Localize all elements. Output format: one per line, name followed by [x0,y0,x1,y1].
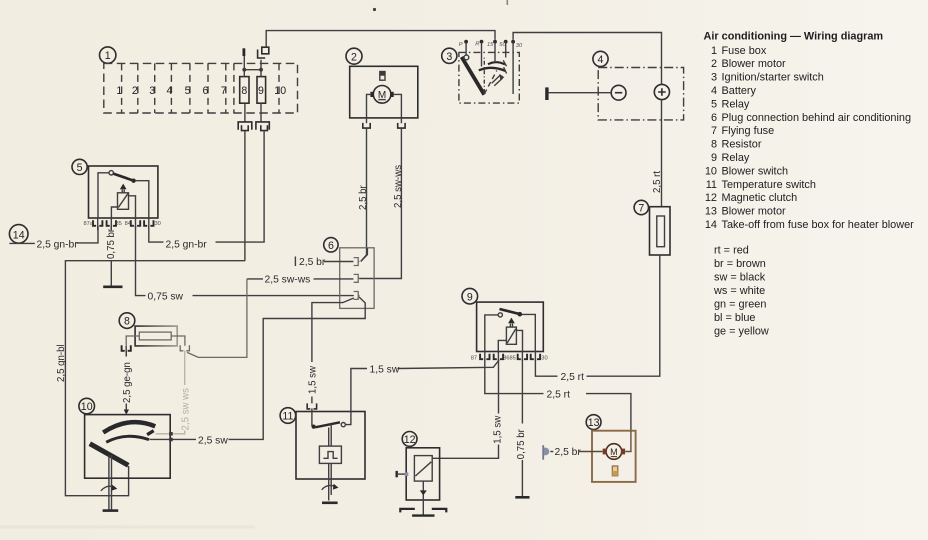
ground below relay K5 [103,285,122,288]
battery G4 circled label 4 [593,51,608,66]
wire fuse 9 to top plug [260,60,262,77]
wire resistor left lead [126,336,139,346]
plug connection X6 circled label 6 [324,238,338,252]
wire fuse 9 down to relay K5 terminal 30 run [216,131,264,243]
relay K9 pivot contact [498,313,502,317]
relay K5 terminal 85 connector [107,220,116,226]
svg-text:10: 10 [705,165,717,177]
svg-text:14: 14 [13,229,25,241]
svg-text:2: 2 [711,58,717,70]
relay K9 terminal 86 connector [494,354,503,360]
ignition stem 50 [505,44,507,58]
ignition pivot circle [464,55,469,60]
svg-text:Blower switch: Blower switch [722,165,789,177]
resistor R8 circled label 8 [119,313,135,329]
relay K5 pivot contact [109,171,113,175]
relay K5 circled label 5 [72,159,87,174]
svg-text:1: 1 [116,85,122,97]
node junction dot above fuse 8 [242,68,246,72]
speck top [373,8,376,11]
svg-text:Relay: Relay [722,152,750,164]
relay K9 coil [506,327,516,344]
magnetic clutch diagonal [415,462,431,476]
blower motor M2 top terminal symbol [380,72,385,81]
svg-text:bl = blue: bl = blue [714,312,755,324]
wire 2,5 br M2 to plug X6 pin1 [361,128,367,261]
blower switch pivot rod double line [109,455,112,510]
svg-text:30: 30 [155,221,161,227]
battery ground stub bar [545,87,548,100]
svg-text:3: 3 [446,51,452,63]
svg-text:Blower motor: Blower motor [722,58,787,70]
svg-text:8: 8 [241,85,247,97]
svg-text:2,5 gn-br: 2,5 gn-br [166,239,208,250]
relay K5 internal wire pivot to terminal 87a [98,173,109,218]
ignition stem 15 [494,44,496,61]
svg-text:4: 4 [167,85,173,97]
svg-text:7: 7 [221,85,227,97]
wire M13 right brush up to 2,5 rt [625,431,631,452]
relay K9 armature arrow [508,318,515,324]
ignition stem R [481,44,483,67]
fuse F8 element [240,77,249,104]
relay K5 terminal 30 connector [144,220,153,226]
clutch terminal blue dot [405,472,409,476]
take-off circled label 14 [9,225,28,244]
wire gn-bl: fuse8 feed across to blower switch lever [65,261,245,496]
ignition arc lower end tick [504,67,507,73]
relay K5 internal wire coil left to terminal 85 [111,207,117,218]
plug X6 pin 1 [354,258,360,266]
relay K9 internal wire coil left to terminal 86 [498,340,506,351]
tick before 2.5 br label [294,257,296,267]
svg-text:12: 12 [404,434,416,446]
resistor R8 outer body [135,326,177,346]
S11 rotation arrow [322,485,337,489]
plug X6 pin 3 [354,292,360,300]
svg-text:84: 84 [125,221,131,227]
connector below fuse 8 [238,122,252,130]
S11 lever end dot [312,425,316,429]
svg-text:Blower motor: Blower motor [722,206,787,218]
svg-text:15: 15 [487,42,494,48]
resistor R8 element [139,332,171,340]
ignition pivot axis dash-dot [483,57,485,93]
relay K5 terminal 84 connector [131,220,140,226]
svg-text:gn = green: gn = green [714,299,766,311]
svg-text:0,75 sw: 0,75 sw [148,291,184,302]
wire plug X6 to S11 with 1,5 sw label gap [311,397,313,404]
connector below resistor right [180,345,189,351]
svg-text:Battery: Battery [722,85,757,97]
svg-text:M: M [610,447,618,457]
ignition contact arc upper [488,62,505,64]
connector below M2 right [398,123,405,128]
clutch left terminal stub bar [396,471,398,477]
blower switch lower arc [106,436,149,442]
wire net30 from fuse9 plug up and right to ignition terminal 15 [266,31,495,47]
S11 rod below box [329,463,332,500]
wire relay K5 85 to ground with label gap [110,226,112,287]
svg-text:85: 85 [510,356,516,362]
fuse numbers 1-10 [116,85,286,97]
wire relay K5 terminal 30 to fuse 9 with label [149,226,216,242]
battery minus terminal circle [611,85,626,100]
wire linking dots above fuses 8 and 9 [244,69,261,71]
ground below S11 [322,501,338,504]
svg-text:6: 6 [328,240,334,252]
svg-text:2,5 sw-ws: 2,5 sw-ws [265,275,311,286]
blower motor M2 circled label 2 [346,48,362,64]
wire pin1 riser to motor feed [361,248,368,262]
relay K9 lever end dot [518,312,523,317]
svg-text:11: 11 [706,179,717,191]
ignition switch S3 circled label 3 [442,48,457,63]
ignition alternate lever dashed [484,71,497,95]
svg-text:14: 14 [705,219,717,231]
blower motor M2 body [350,66,418,118]
speck top right [507,0,509,5]
svg-text:5: 5 [77,162,83,174]
relay K5 coil diagonal [118,194,128,208]
svg-text:2,5 br: 2,5 br [299,257,326,268]
wire M2 left brush down [367,94,371,123]
relay K9 body [477,302,544,351]
blower switch rotation arrow [101,486,116,491]
blower motor M13 armature circle [606,444,622,460]
svg-text:1: 1 [711,45,717,57]
wire fuse 9 bottom [260,103,262,122]
svg-text:30: 30 [541,356,547,362]
svg-text:Fuse box: Fuse box [722,45,767,57]
svg-text:13: 13 [588,417,600,429]
ignition stem 30 [512,44,514,94]
svg-text:Take-off from fuse box for hea: Take-off from fuse box for heater blower [722,219,915,231]
svg-text:2,5 gn-bl: 2,5 gn-bl [56,344,67,382]
blower switch small contact dash [147,431,154,435]
svg-text:1,5 sw: 1,5 sw [492,415,503,444]
ignition arc upper end tick [503,60,506,66]
svg-text:4: 4 [711,85,717,97]
relay K9 terminal 30 connector [531,354,540,360]
svg-text:13: 13 [705,206,717,218]
clutch chassis ground bottom bar [412,514,434,516]
blower switch wiper lever [90,444,129,466]
wire pin 2 lead from left (2,5 sw-ws) [247,278,354,280]
magnetic clutch Y12 circled label 12 [402,432,417,447]
wire end arrow terminal (blue) before 2,5 br [542,445,544,460]
ground below relay K9 [515,496,529,499]
wire 2,5 br into M13 left brush [579,451,603,453]
plug connector above fuse 9 [258,47,269,58]
wire pin 3 housing diagonal right down to blower switch feed [263,297,365,319]
svg-text:1,5 sw: 1,5 sw [307,365,318,394]
magnetic clutch Y12 body [406,448,439,500]
svg-text:8: 8 [711,139,717,151]
relay K9 terminal 87 connector [480,354,489,360]
blower motor M13 left brush [603,449,607,455]
magnetic clutch coil box [414,456,432,482]
svg-text:87a: 87a [84,221,94,227]
svg-text:3: 3 [711,72,717,84]
connector below M2 left [363,123,370,128]
blower motor M13 lower terminal symbol [612,466,618,476]
svg-text:Flying fuse: Flying fuse [722,125,775,137]
connector above S11 [307,403,316,409]
relay K5 armature arrow [120,184,127,190]
svg-text:10: 10 [274,85,286,97]
blower switch upper thick arc [103,422,155,432]
svg-text:2,5 br: 2,5 br [555,447,582,458]
wire sw-ws branch down to resistor R8 right connector [187,279,247,358]
temperature switch S11 body [296,412,365,480]
svg-text:Ignition/starter switch: Ignition/starter switch [722,72,824,84]
wire fuse 8 down to gn-bl run [244,131,246,261]
svg-text:0,75 br: 0,75 br [516,428,527,459]
ignition terminal P dot [464,40,468,44]
svg-text:2: 2 [132,85,138,97]
svg-text:7: 7 [711,125,717,137]
blower motor M13 circled label 13 [586,415,601,430]
svg-text:2,5 rt: 2,5 rt [561,372,585,383]
plug X6 pin 2 [354,274,360,282]
battery plus terminal circle [654,84,669,99]
blower motor M2 armature circle [373,86,391,104]
wire relay K9 87 to blower motor M13 (2,5 rt) [485,359,631,430]
svg-text:Temperature switch: Temperature switch [722,179,816,191]
blower switch right contact tick lower [169,438,173,442]
ignition contact arc lower [479,68,506,71]
connector below fuse 9 [256,122,269,130]
svg-text:30: 30 [516,43,523,49]
flying fuse F7 circled label 7 [634,200,648,214]
svg-text:Resistor: Resistor [722,139,762,151]
svg-text:2: 2 [351,51,357,63]
blower switch S10 circled label 10 [79,398,95,414]
svg-text:2,5 ge-gn: 2,5 ge-gn [122,362,133,403]
wire 14 to relay K5 87a with label [9,226,98,243]
svg-text:85: 85 [116,221,122,227]
svg-text:9: 9 [467,291,473,303]
svg-text:2,5 sw: 2,5 sw [198,435,228,446]
node junction dot above fuse 9 [259,68,263,72]
svg-text:rt = red: rt = red [714,245,749,257]
relay K5 terminal 87a connector [93,220,102,226]
S11 bimetal element box [319,446,341,463]
blower switch right contact tick upper [169,432,173,436]
ignition terminal 15 dot [493,40,497,44]
faint page edge shadow bottom-left [0,526,255,529]
fuse box U1 circled label 1 [100,47,116,63]
clutch chassis ground stepped symbol [400,509,446,513]
svg-text:0,75 br: 0,75 br [106,228,117,259]
fuse F9 element [257,77,266,104]
blower motor M2 left brush [370,92,373,97]
svg-text:Relay: Relay [722,98,750,110]
S11 contact circle [341,423,345,427]
relay K9 coil diagonal [507,329,516,343]
svg-text:1,5 sw: 1,5 sw [370,364,400,375]
wire S11 connector into box [311,408,313,426]
svg-text:9: 9 [711,152,717,164]
svg-text:ge = yellow: ge = yellow [714,326,769,338]
terminal blade above fuse 8 [242,48,245,56]
svg-text:Magnetic clutch: Magnetic clutch [722,192,798,204]
wire 2,5 sw-ws M2 to plug X6 pin2 [359,128,401,278]
relay K5 internal wire coil right to terminal 84 [129,196,136,218]
ground below blower switch [103,509,119,512]
wire relay K9 86 down to clutch (1,5 sw) with label gap [432,359,498,458]
relay K9 internal wire coil right to terminal 85 [516,330,522,351]
svg-text:ws = white: ws = white [713,285,765,297]
svg-text:Plug connection behind air con: Plug connection behind air conditioning [722,112,912,124]
wire stub to clutch body [397,473,407,475]
svg-text:6: 6 [202,85,208,97]
relay K9 circled label 9 [462,288,478,304]
fuse box cell separators [122,63,279,113]
svg-text:7: 7 [638,203,644,215]
relay K9 switch lever [500,309,520,314]
relay K5 coil [118,193,129,210]
wire flying fuse down to relay K9 terminal 30 (2,5 rt) [535,255,659,376]
ignition terminal 30 dot [511,40,515,44]
svg-text:2,5 rt: 2,5 rt [652,171,663,193]
ignition terminal R dot [480,40,484,44]
svg-text:2,5 sw ws: 2,5 sw ws [180,388,191,431]
flying fuse F7 element [657,216,665,247]
svg-text:12: 12 [705,192,717,204]
wire pin 3 housing diagonal left [312,298,354,362]
wire 2,5 ge-gn resistor to blower switch with label gap [125,351,127,410]
svg-text:2,5 rt: 2,5 rt [547,389,571,400]
relay K5 lever end dot [131,179,135,183]
svg-text:Air conditioning — Wiring diag: Air conditioning — Wiring diagram [704,31,884,43]
wire clutch coil down [422,481,424,515]
wire ignition 30 to battery plus [513,33,661,85]
S11 actuator rod double line [329,424,332,446]
blower motor M13 right brush [621,449,625,455]
svg-text:2,5 sw-ws: 2,5 sw-ws [393,165,404,208]
wire fuse 8 bottom [244,103,246,122]
svg-text:8: 8 [124,316,130,328]
svg-text:5: 5 [185,85,191,97]
wire resistor right lead [171,336,185,346]
svg-text:87: 87 [471,356,477,362]
wire ground stub to battery minus [549,92,612,94]
relay K9 internal wire pivot to terminal 87 [485,315,498,352]
ignition terminal 50 dot [504,40,508,44]
blower motor M13 body (brown) [592,431,636,482]
svg-text:5: 5 [711,98,717,110]
relay K9 internal wire lever to terminal 30 [522,314,535,351]
clutch arrow down [420,490,427,495]
battery dashed-dotted outline [598,68,683,120]
wire fuse 8 top stub [243,56,245,77]
wire S11 contact to relay K9 (1,5 sw) [346,360,499,425]
wire battery plus down to flying fuse [661,100,663,207]
svg-text:br = brown: br = brown [714,258,766,270]
svg-text:6: 6 [711,112,717,124]
svg-text:10: 10 [81,401,93,413]
ignition key symbol [492,75,503,85]
svg-text:1: 1 [105,50,111,62]
ignition stem P [465,44,467,55]
blower switch S10 body [85,415,171,479]
arrow into blower switch top [124,410,129,415]
relay K5 body [89,166,158,218]
wire label 2,5 br at M13 [550,451,553,453]
relay K5 internal wire lever to terminal 30 [136,181,149,218]
svg-text:P: P [459,42,463,48]
relay K5 switch lever [113,174,133,181]
svg-text:sw = black: sw = black [714,272,766,284]
ignition switch dashed-dotted housing [459,52,519,103]
connector below resistor left [122,345,131,351]
svg-text:4: 4 [598,54,604,66]
temperature switch S11 circled label 11 [280,408,296,424]
svg-text:2,5 br: 2,5 br [358,184,369,210]
ignition key lever thick [462,57,485,95]
wire relay K9 85 to ground (0,75 br) with label gap [521,359,523,497]
wire relay K5 84 to plug X6 pin3 (0,75 sw) [136,226,354,296]
relay K9 terminal 85 connector [518,354,527,360]
wire 2,5 sw from blower switch up [150,319,264,440]
fuse box dashed outline [104,63,298,113]
flying fuse F7 body [650,207,671,255]
svg-text:11: 11 [282,411,293,423]
wire M2 right brush down [394,94,402,123]
S11 switch lever [315,422,340,427]
blower motor M2 right brush [390,92,393,97]
svg-text:3: 3 [149,85,155,97]
wire 2,5 sw ws light gray resistor to switch contact [156,351,185,434]
svg-text:R: R [475,42,479,48]
svg-text:9: 9 [258,85,264,97]
S11 bimetal step symbol [323,452,337,459]
svg-text:2,5 gn-br: 2,5 gn-br [37,239,79,250]
plug connection X6 housing [340,248,374,309]
